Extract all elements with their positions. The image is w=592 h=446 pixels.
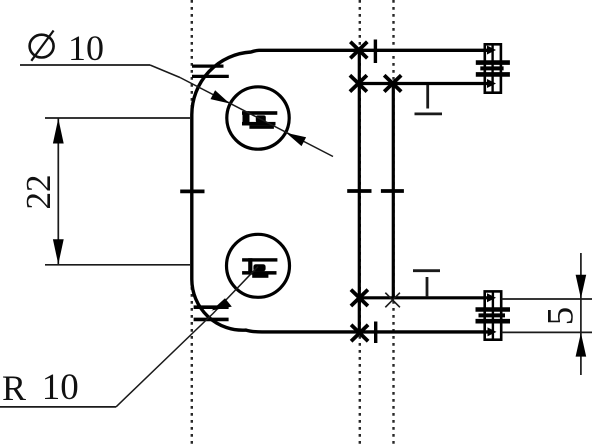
midpoint tick on vertical 2 <box>381 189 404 193</box>
coincidence cross at inner top line / vertical 1 <box>350 75 367 91</box>
hole circle lower (diameter 10) <box>227 234 290 297</box>
center mark glyph of lower hole <box>242 258 277 278</box>
coincidence cross at bottom line / vertical 1 <box>351 325 368 341</box>
diameter dimension line through upper hole <box>180 78 333 157</box>
fixation symbol top right <box>476 44 510 92</box>
dimension 22 extension line lower <box>45 264 191 266</box>
diameter dimension leader diagonal <box>150 65 180 78</box>
radius dimension arrowhead at arc <box>212 298 232 310</box>
dimension 22 arrowhead top <box>53 119 64 144</box>
midpoint tick on top line <box>374 40 377 64</box>
midpoint tick on bottom line <box>374 322 377 344</box>
center mark glyph of upper hole <box>242 111 277 129</box>
diameter dimension arrowhead upper-left <box>211 90 230 103</box>
dimension 22 extension line upper <box>45 117 191 119</box>
fixation symbol bottom right <box>476 291 511 339</box>
midpoint tick on vertical 1 <box>347 189 371 193</box>
tangent bars on bottom-left arc <box>194 305 229 309</box>
dimension 5 arrowhead bottom <box>576 333 587 357</box>
radius dimension line to lower hole centre <box>116 267 258 407</box>
coincidence cross at top line / vertical 1 <box>350 42 367 58</box>
dimension 22 dimension line <box>57 118 59 265</box>
dimension text R 10 <box>2 367 26 409</box>
perpendicular symbol top (hanging below inner top line) <box>415 85 443 114</box>
perpendicular symbol bottom (standing above inner bottom line) <box>413 271 440 297</box>
radius dimension leader underline <box>0 406 116 408</box>
hole circle upper (diameter 10) <box>227 87 289 149</box>
thin cross at inner bottom line / vertical 2 <box>385 293 400 308</box>
dimension 5 arrowhead top <box>576 275 587 299</box>
dimension text 22 (rotated) <box>19 175 59 210</box>
dimension 5 dimension line <box>580 253 582 375</box>
diameter symbol of dimension text <box>30 31 54 61</box>
dimension 5 extension line lower <box>502 331 592 333</box>
centerline middle (vertical dotted construction line) <box>359 0 361 446</box>
sketch line vertical 1 <box>358 50 361 332</box>
dimension 5 extension line upper <box>502 298 592 300</box>
midpoint tick on left edge <box>180 189 204 193</box>
diameter dimension leader underline <box>20 64 150 66</box>
diameter dimension arrowhead lower-right <box>286 133 306 146</box>
dimension text diameter 10 <box>68 27 104 69</box>
sketch line vertical 2 <box>392 84 395 298</box>
part outline (plate with rounded left corners) <box>192 50 488 332</box>
tangent bars on top-left arc <box>192 64 224 67</box>
dimension text 5 (rotated) <box>539 306 582 325</box>
centerline right (vertical dotted construction line) <box>392 0 394 446</box>
dimension 22 arrowhead bottom <box>53 239 64 264</box>
coincidence cross at inner bottom line / vertical 1 <box>351 290 368 306</box>
sketch line top inner horizontal <box>358 82 488 85</box>
centerline left (vertical dotted construction line) <box>191 0 193 446</box>
coincidence cross at inner top line / vertical 2 <box>384 75 401 91</box>
sketch line bottom inner horizontal <box>358 296 488 299</box>
